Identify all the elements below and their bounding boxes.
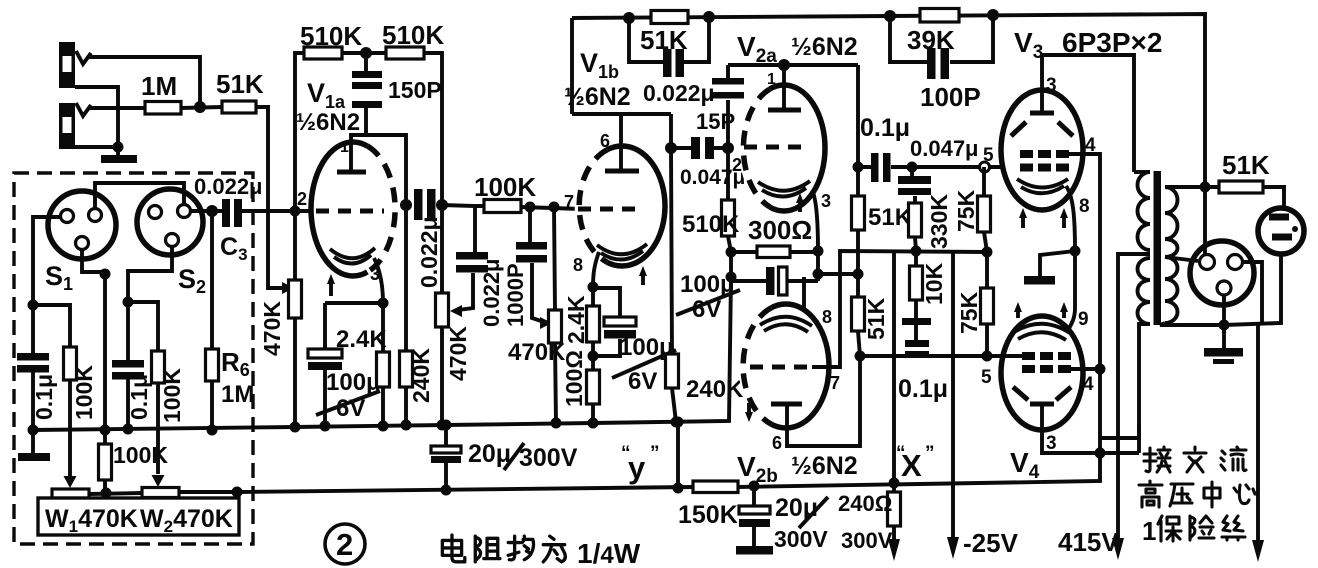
parallel loop 39K/100P xyxy=(890,15,993,62)
node 240ohm junction xyxy=(889,478,900,489)
svg-text:3: 3 xyxy=(821,191,831,211)
wire V3/V4 cathode link xyxy=(1073,251,1077,308)
wire primary bottom lead xyxy=(1139,324,1150,438)
tube V2b envelope xyxy=(743,304,829,428)
capacitor 15P xyxy=(726,65,730,148)
resistor 150K (lower rail) xyxy=(693,481,738,493)
grid bars V3 row1 xyxy=(1020,150,1033,158)
capacitor 0.047u (2) xyxy=(912,167,915,203)
svg-text:1M: 1M xyxy=(141,71,177,101)
pot box W1 470K W2 470K xyxy=(38,498,239,535)
wire V2b plate down and right xyxy=(787,356,860,446)
svg-text:470K: 470K xyxy=(259,301,285,356)
svg-text:0.1μ: 0.1μ xyxy=(31,374,57,420)
node S1 bottom junction xyxy=(100,269,111,280)
wire jack sleeves to ground xyxy=(75,87,118,147)
heater arrows V3 xyxy=(1021,214,1025,228)
svg-text:3: 3 xyxy=(1046,75,1057,96)
svg-text:9: 9 xyxy=(1078,309,1089,330)
svg-text:75K: 75K xyxy=(956,291,982,334)
capacitor 1000P xyxy=(530,207,544,322)
node jack ground junction xyxy=(113,142,124,153)
grid bars V4 row1 xyxy=(1022,352,1035,360)
svg-text:6V: 6V xyxy=(628,368,657,395)
svg-text:1M: 1M xyxy=(221,381,254,408)
svg-text:150K: 150K xyxy=(678,501,738,529)
svg-text:8: 8 xyxy=(1079,196,1090,217)
cathode V3 xyxy=(1017,179,1068,188)
node grid junction 1 xyxy=(525,202,536,213)
svg-text:15P: 15P xyxy=(696,109,735,134)
grid bars V4 row2 xyxy=(1022,365,1035,373)
capacitor 0.1u (divider) xyxy=(902,318,931,325)
capacitor C3 0.022u xyxy=(222,199,230,227)
wire V4 grid pin5 xyxy=(987,354,1022,358)
wire branch to 100K xyxy=(33,305,70,347)
svg-text:1000P: 1000P xyxy=(503,263,528,327)
transformer secondary winding xyxy=(1165,187,1178,323)
tube V1a envelope xyxy=(311,142,395,276)
wire lower feedback rail xyxy=(237,438,1139,492)
svg-text:”: ” xyxy=(925,443,935,464)
wire coupling to 100K xyxy=(442,205,484,253)
heater arrow V1b xyxy=(641,272,645,285)
wire V1a plate to coupling xyxy=(351,135,406,205)
wire V4 cathode pin9 xyxy=(1068,308,1075,330)
capacitor 100P xyxy=(927,48,936,79)
svg-text:8: 8 xyxy=(822,307,832,327)
svg-text:330K: 330K xyxy=(926,194,952,249)
resistor 100K (interstage) xyxy=(484,200,521,213)
wire X-line x894 xyxy=(892,251,896,483)
svg-text:4: 4 xyxy=(1083,374,1094,395)
wire y-link xyxy=(676,422,680,488)
svg-text:20μ: 20μ xyxy=(775,494,818,522)
ground (V3 cathode) xyxy=(1024,276,1055,285)
svg-text:51K: 51K xyxy=(216,69,264,99)
cathode V1a xyxy=(330,248,375,258)
wire grid node V1a xyxy=(290,206,301,217)
resistor 51K (a) xyxy=(856,167,860,196)
plate bar V2a xyxy=(768,108,801,113)
resistor 51K (input) xyxy=(222,101,256,113)
node pot left junction xyxy=(100,425,111,436)
arrow 415V xyxy=(1112,538,1124,560)
wire pot out to lower rail xyxy=(179,490,237,494)
wire primary top lead xyxy=(1134,170,1150,174)
wire cathode net xyxy=(325,303,383,426)
svg-text:300V: 300V xyxy=(774,526,828,552)
label chinese resistors note (dian zu jun wei 1/4W) xyxy=(442,535,464,562)
resistor 100K (pot feed 1) xyxy=(64,347,77,380)
wire to ground (V3) xyxy=(1040,251,1075,277)
resistor 470K (c) xyxy=(554,207,555,310)
wire V1b cathode down xyxy=(593,252,599,287)
svg-text:240K: 240K xyxy=(686,376,744,403)
svg-text:1: 1 xyxy=(1142,516,1156,546)
wire V1a cathode down xyxy=(374,258,383,303)
node C3 input junction xyxy=(206,205,218,217)
resistor 240K (a) xyxy=(404,205,408,351)
svg-text:3: 3 xyxy=(1046,433,1057,454)
arrow into 470K (b) xyxy=(450,305,462,317)
connector S2 xyxy=(137,189,203,255)
tube V4 envelope xyxy=(1001,316,1083,430)
capacitor 0.022u (interstage) xyxy=(456,252,488,260)
wiper arrow W2 xyxy=(152,475,165,487)
tube V3 envelope xyxy=(1001,90,1083,210)
node 0.1u junction xyxy=(853,162,864,173)
svg-text:4: 4 xyxy=(1085,135,1096,156)
svg-text:1/4W: 1/4W xyxy=(577,538,641,568)
resistor 240ohm xyxy=(892,483,896,492)
dashed selector box xyxy=(14,173,253,544)
svg-text:51K: 51K xyxy=(1222,150,1270,180)
svg-text:7: 7 xyxy=(564,192,574,212)
wire pot link xyxy=(89,493,142,494)
wire V2a cathode down xyxy=(812,190,818,251)
svg-text:½6N2: ½6N2 xyxy=(791,452,858,480)
svg-text:415V: 415V xyxy=(1058,527,1119,557)
svg-text:0.047μ: 0.047μ xyxy=(910,136,979,161)
svg-text:100P: 100P xyxy=(920,82,981,112)
wire jack J1 tip to junction xyxy=(88,57,200,107)
wire main ground rail xyxy=(33,277,731,430)
svg-text:0.022μ: 0.022μ xyxy=(194,174,263,199)
capacitor 0.047u (1) xyxy=(691,137,700,159)
svg-text:300V: 300V xyxy=(519,444,578,472)
wire secondary top lead xyxy=(1165,185,1219,189)
wire V1b plate to B+ loop xyxy=(572,18,671,171)
cathode V4 (top) xyxy=(1014,324,1070,333)
plate bar V4 xyxy=(1030,402,1054,407)
resistor 510K (2) xyxy=(386,47,424,59)
resistor 470K grid leak V1a xyxy=(293,211,297,280)
svg-text:100K: 100K xyxy=(113,442,168,468)
node speaker common xyxy=(1219,320,1230,331)
svg-text:100K: 100K xyxy=(474,172,536,202)
capacitor 0.022u (V1a out) xyxy=(400,199,412,211)
wire V3 cathode pin8 xyxy=(1066,186,1075,251)
wire secondary center tap xyxy=(1165,257,1198,261)
resistor 39K (top rail) xyxy=(920,9,959,23)
arrow into 470K (c) xyxy=(540,317,552,329)
jack J1 body xyxy=(59,42,75,88)
svg-text:300V: 300V xyxy=(841,528,893,553)
wire bias line y356 xyxy=(860,354,987,358)
node 10K top xyxy=(911,246,922,257)
svg-text:0.022μ: 0.022μ xyxy=(479,258,504,327)
resistor R6 1M xyxy=(210,211,214,349)
svg-text:51K: 51K xyxy=(868,204,913,231)
plate bar V1a xyxy=(337,170,366,175)
node V2a cathode lower xyxy=(813,269,824,280)
tube V1b envelope xyxy=(579,146,665,266)
capacitor 100u/6V (V1b) xyxy=(593,288,620,356)
grid V2a (dashed) xyxy=(744,145,810,150)
wire primary center tap to 415V xyxy=(1118,254,1150,545)
svg-text:510K: 510K xyxy=(682,211,740,238)
node pot center junction xyxy=(101,488,112,499)
node 75K junction xyxy=(982,247,993,258)
svg-text:7: 7 xyxy=(830,373,840,393)
circled 2 xyxy=(325,524,365,564)
svg-text:2.4K: 2.4K xyxy=(563,295,589,344)
resistor 10K xyxy=(914,251,918,266)
ground (speaker) xyxy=(1222,325,1226,349)
wire S2 bottom pin xyxy=(128,246,172,360)
capacitor 0.1u (V2a out) xyxy=(871,153,879,182)
svg-text:75K: 75K xyxy=(953,189,979,232)
svg-text:0.022μ: 0.022μ xyxy=(416,216,442,288)
node S2 branch junction xyxy=(123,297,134,308)
wire 510K loop left xyxy=(295,53,304,211)
svg-text:0.1μ: 0.1μ xyxy=(126,374,152,420)
wire branch to 100K (2) xyxy=(128,302,158,351)
svg-text:51K: 51K xyxy=(863,297,889,340)
svg-text:0.022μ: 0.022μ xyxy=(643,80,715,106)
jack J2 contact xyxy=(76,103,91,116)
cathode V2b (top, inverted) xyxy=(760,317,812,326)
resistor 100K (pot feed 2) xyxy=(152,351,165,383)
label chinese AC note line1 (jie jiao liu) xyxy=(1144,447,1170,472)
plate bar V2b (bottom) xyxy=(771,402,802,407)
pot W2 track xyxy=(142,488,179,498)
arrow -25V xyxy=(947,537,959,559)
wire -25V line xyxy=(951,252,955,544)
wire V3 screen pin4 xyxy=(1069,154,1139,438)
svg-text:2: 2 xyxy=(732,155,742,175)
svg-text:51K: 51K xyxy=(640,25,688,55)
node V4 grid junction xyxy=(982,351,993,362)
cathode V2a xyxy=(758,181,810,191)
resistor 240K (b) xyxy=(665,142,677,154)
wire V2a plate stem xyxy=(782,65,786,110)
svg-text:2: 2 xyxy=(336,527,353,562)
beam plates V4 xyxy=(1013,387,1071,400)
pot W1 track xyxy=(52,489,89,499)
svg-text:y: y xyxy=(628,450,646,485)
svg-text:”: ” xyxy=(650,443,660,464)
plug AC (2-pin) xyxy=(1258,208,1304,254)
node pot output junction xyxy=(232,487,243,498)
resistor 100ohm (V1b) xyxy=(587,370,600,404)
svg-text:240Ω: 240Ω xyxy=(838,491,892,516)
resistor 75K (1) xyxy=(982,167,986,196)
wire V2b grid to divider xyxy=(812,251,987,367)
tube V2a envelope xyxy=(743,85,825,211)
svg-text:6: 6 xyxy=(772,433,782,453)
capacitor 20u/300V (1) xyxy=(444,425,448,490)
resistor 510K (V2a grid leak) xyxy=(726,148,730,200)
svg-text:39K: 39K xyxy=(907,25,955,55)
svg-text:X: X xyxy=(901,448,922,483)
node grid junction 2 xyxy=(549,202,560,213)
svg-text:6P3P×2: 6P3P×2 xyxy=(1062,27,1162,58)
grid bars V3 row2 xyxy=(1020,164,1033,172)
resistor 470K (b) xyxy=(440,205,444,293)
plate bar V3 xyxy=(1030,111,1054,116)
svg-text:470K: 470K xyxy=(508,339,566,366)
node S1 left branch xyxy=(28,300,39,311)
capacitor 150P xyxy=(364,53,368,135)
heater arrows V4 xyxy=(1016,308,1020,318)
node rail junctions left xyxy=(28,425,39,436)
resistor 330K xyxy=(909,203,922,237)
svg-text:W2470K: W2470K xyxy=(140,505,233,536)
svg-text:300Ω: 300Ω xyxy=(748,215,812,245)
resistor 51K (b) xyxy=(856,274,860,297)
wire top B+ rail xyxy=(572,14,1205,254)
wire V2a plate rail xyxy=(728,65,858,167)
wire to fuse arrow xyxy=(1256,324,1260,546)
resistor 51K (top rail) xyxy=(651,11,688,24)
wire S2 right pin to C3 xyxy=(190,209,222,213)
capacitor 0.1u (left1) xyxy=(17,353,49,361)
grid V1a (dashed) xyxy=(316,209,384,214)
transformer core xyxy=(1154,171,1162,325)
connector speaker (3-pin) xyxy=(1190,241,1254,305)
grid V2b (dashed) xyxy=(750,365,812,370)
svg-text:150P: 150P xyxy=(388,77,442,103)
label chinese AC note line2 (gao ya zhong xin) xyxy=(1139,481,1162,507)
wiper arrow W1 xyxy=(64,476,77,488)
resistor 510K (1) xyxy=(304,47,342,59)
svg-text:½6N2: ½6N2 xyxy=(296,109,360,136)
capacitor 100u/6V (V2a) xyxy=(731,279,818,283)
svg-text:100Ω: 100Ω xyxy=(561,350,587,407)
parallel loop 51K/0.022u xyxy=(629,17,709,62)
wire S1 left pin down xyxy=(33,217,61,353)
svg-text:100K: 100K xyxy=(159,368,185,423)
svg-text:510K: 510K xyxy=(382,20,444,50)
heater arrow V2b xyxy=(747,403,751,416)
wire V2b cathode stem xyxy=(802,277,806,311)
resistor 2.4K (V1a cathode) xyxy=(377,352,390,387)
resistor 75K (2) xyxy=(985,252,989,288)
wire S1 right pin to S2 right pin (top link) xyxy=(95,183,184,209)
beam plates V3 xyxy=(1011,122,1073,136)
ground (input) xyxy=(101,155,137,163)
wire speaker bottom pin xyxy=(1222,295,1226,325)
capacitor 100u/6V (V1a cathode) xyxy=(308,349,342,358)
wire V4 screen pin4 xyxy=(1064,367,1100,371)
capacitor 0.022u (top) xyxy=(663,49,672,77)
svg-text:½6N2: ½6N2 xyxy=(564,83,631,111)
transformer primary winding xyxy=(1138,172,1151,324)
resistor 300ohm xyxy=(731,250,818,254)
arrow fuse line xyxy=(1252,540,1264,562)
node 510K junction xyxy=(360,47,372,59)
node pin5 V3 (open) xyxy=(980,162,990,172)
svg-text:5: 5 xyxy=(983,145,994,166)
svg-text:2: 2 xyxy=(297,189,307,209)
heater arrow V2a xyxy=(798,199,802,212)
wire arrow into 470K grid leak xyxy=(282,282,294,294)
wire jack J2 tip xyxy=(88,106,118,110)
resistor 2.4K (V1b) xyxy=(591,287,595,306)
svg-text:100K: 100K xyxy=(71,365,97,420)
plate bar V1b xyxy=(605,169,639,174)
node B+ to speaker pin xyxy=(1200,182,1211,193)
svg-text:0.1μ: 0.1μ xyxy=(860,114,910,142)
node 1M/51K junction xyxy=(194,101,206,113)
wire V3 plate to transformer xyxy=(1042,55,1134,172)
node 0.047u (2) junction xyxy=(907,162,918,173)
svg-text:20μ: 20μ xyxy=(468,440,511,468)
svg-text:10K: 10K xyxy=(921,262,947,305)
jack J1 contact xyxy=(76,51,91,64)
grid V1b (dashed) xyxy=(578,207,644,212)
svg-text:6V: 6V xyxy=(336,395,365,422)
svg-text:240K: 240K xyxy=(408,348,434,403)
svg-text:2.4K: 2.4K xyxy=(336,326,387,353)
svg-text:6: 6 xyxy=(600,131,610,151)
arrow 300V down xyxy=(888,539,900,561)
cathode V1b xyxy=(597,244,647,254)
capacitor 20u/300V (2) xyxy=(749,481,760,492)
heater arrow V1a xyxy=(329,280,333,296)
svg-text:510K: 510K xyxy=(300,21,362,51)
connector S1 xyxy=(48,191,116,259)
svg-text:W1470K: W1470K xyxy=(45,505,138,536)
wire secondary bottom lead xyxy=(1160,323,1224,325)
svg-text:1: 1 xyxy=(767,71,776,88)
resistor 51K (output) xyxy=(1219,181,1263,193)
wire plug bottom xyxy=(1224,254,1281,325)
resistor 100K (to pots) xyxy=(99,444,112,480)
ground chassis (bottom left) xyxy=(31,430,35,454)
wire speaker right pin xyxy=(1243,262,1262,323)
svg-text:470K: 470K xyxy=(445,326,471,381)
svg-text:6V: 6V xyxy=(692,296,721,323)
wire cathode node links xyxy=(731,251,858,281)
wire V4 plate to transformer xyxy=(1042,404,1139,453)
svg-text:-25V: -25V xyxy=(963,528,1019,558)
svg-text:½6N2: ½6N2 xyxy=(791,33,858,61)
svg-text:5: 5 xyxy=(981,367,992,388)
wire to V3 grid xyxy=(912,165,1004,169)
jack J2 body xyxy=(59,103,75,149)
svg-text:1: 1 xyxy=(340,139,349,156)
capacitor 0.1u (left2) xyxy=(112,360,144,368)
resistor 1M (input) xyxy=(118,106,145,110)
svg-text:8: 8 xyxy=(573,255,583,275)
wire S1 bottom pin xyxy=(82,249,105,430)
svg-text:0.1μ: 0.1μ xyxy=(898,375,948,403)
